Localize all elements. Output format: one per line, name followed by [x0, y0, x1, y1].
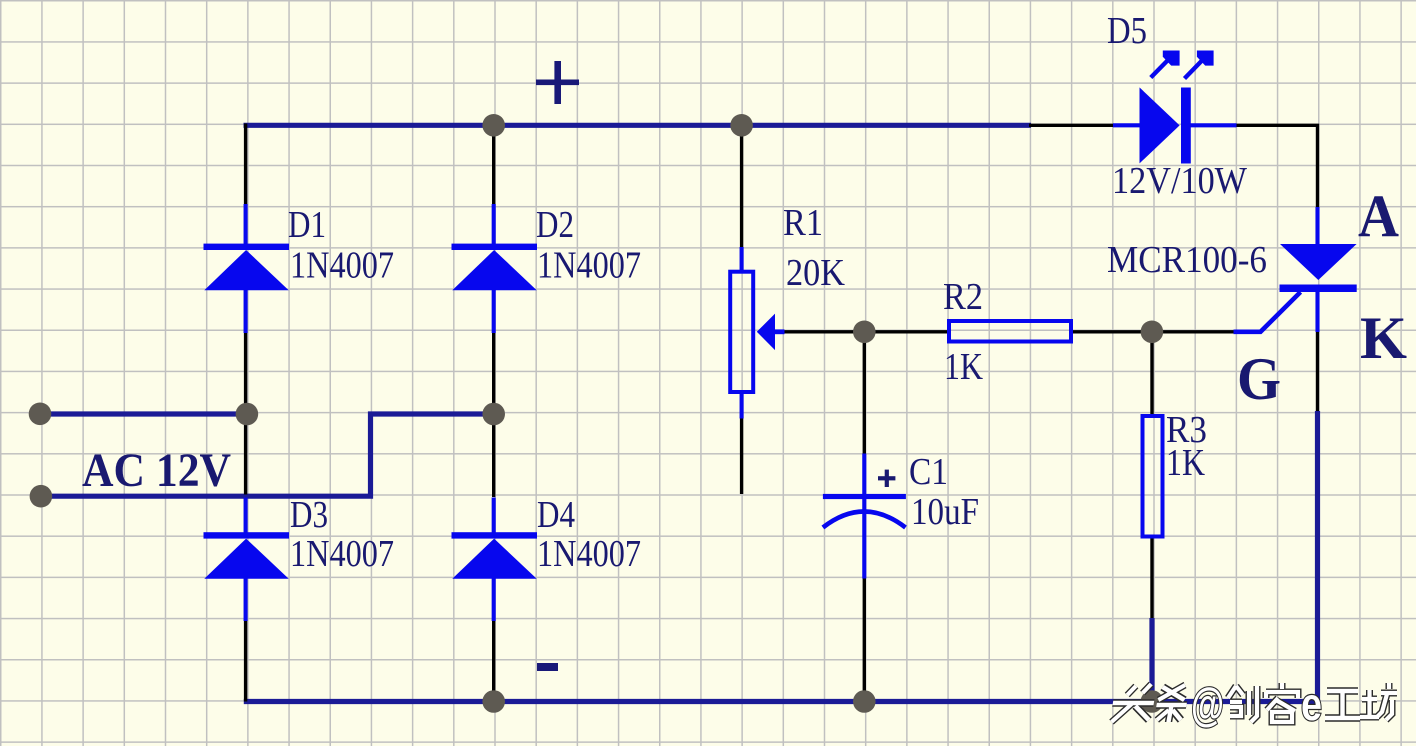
svg-text:20K: 20K — [786, 252, 845, 294]
node junction top rail/D2 — [482, 114, 505, 137]
wire top rail black mid segment — [1029, 124, 1114, 127]
wire wiper to R2 black — [784, 330, 949, 333]
label + plus rail mark — [536, 61, 579, 104]
wire top rail black right segment with corner — [1236, 125, 1318, 209]
wire R2 to gate node black — [1072, 330, 1237, 333]
diode D3 — [204, 498, 290, 622]
thyristor MCR100-6 — [1234, 207, 1357, 332]
node junction AC1/column1 — [236, 403, 259, 426]
svg-text:G: G — [1237, 346, 1281, 412]
svg-text:1N4007: 1N4007 — [290, 245, 394, 287]
capacitor C1 polarity plus mark — [878, 470, 895, 487]
wire column1 upper black — [244, 124, 247, 207]
LED D5 — [1113, 87, 1237, 163]
potentiometer R1 wiper arrow — [757, 314, 785, 351]
node junction bottom rail/D4 — [482, 690, 505, 713]
svg-text:1N4007: 1N4007 — [290, 533, 394, 575]
LED D5 arrow 2 — [1185, 51, 1214, 79]
node junction wiper/C1 — [853, 321, 876, 344]
svg-text:AC 12V: AC 12V — [82, 444, 231, 497]
watermark toutiao logo glyph tou — [1110, 684, 1158, 722]
svg-text:C1: C1 — [909, 451, 948, 493]
wire R3 bottom black — [1150, 538, 1153, 620]
node junction gate/R3 — [1141, 321, 1164, 344]
svg-text:MCR100-6: MCR100-6 — [1107, 239, 1267, 281]
svg-text:D3: D3 — [290, 494, 328, 536]
wire R1 bottom stub black — [740, 417, 743, 494]
svg-text:1K: 1K — [944, 346, 983, 388]
diode D1 — [204, 204, 290, 333]
wire cathode black segment — [1316, 332, 1319, 413]
node junction AC2/column2 — [482, 403, 505, 426]
LED D5 arrow 1 — [1151, 51, 1180, 78]
resistor R2 — [949, 321, 1071, 342]
wire column1 middle black — [244, 331, 247, 495]
wire column2 lower black — [492, 619, 495, 702]
watermark glyph fang — [1360, 683, 1397, 720]
node junction top rail/R1 — [730, 114, 753, 137]
resistor R3 — [1143, 416, 1163, 537]
wire top rail navy (+ bus) — [244, 123, 1032, 128]
wire C1 bottom black — [863, 577, 866, 702]
diode D4 — [452, 498, 538, 622]
svg-text:D4: D4 — [537, 494, 575, 536]
node AC terminal upper — [29, 403, 52, 426]
svg-text:@: @ — [1191, 678, 1224, 730]
svg-text:D5: D5 — [1107, 10, 1147, 52]
svg-text:D1: D1 — [288, 204, 326, 246]
wire cathode navy segment — [1315, 411, 1320, 702]
node junction bottom rail/C1 — [853, 690, 876, 713]
svg-text:1K: 1K — [1166, 442, 1205, 484]
potentiometer R1 — [730, 247, 753, 419]
wire R3 top black — [1150, 332, 1153, 415]
node AC terminal lower — [30, 485, 53, 508]
wire AC input upper — [40, 411, 247, 416]
watermark glyph ke — [1266, 683, 1298, 722]
svg-text:12V/10W: 12V/10W — [1112, 160, 1247, 202]
watermark glyph gong — [1325, 691, 1360, 718]
svg-text:A: A — [1358, 183, 1399, 249]
svg-text:D2: D2 — [536, 204, 574, 246]
wire column1 lower black — [244, 619, 247, 702]
svg-text:R2: R2 — [943, 276, 983, 318]
capacitor C1 — [823, 454, 906, 579]
node junction bottom rail/R3 — [1141, 690, 1164, 713]
diode D2 — [452, 204, 538, 333]
label - minus rail mark — [537, 663, 558, 671]
svg-text:10uF: 10uF — [911, 491, 979, 533]
watermark toutiao logo glyph tiao — [1154, 685, 1191, 722]
svg-text:K: K — [1360, 305, 1407, 371]
wire column2 upper black — [492, 125, 495, 206]
watermark glyph chuang — [1228, 686, 1257, 722]
wire C1 top black — [863, 332, 866, 456]
svg-text:R1: R1 — [783, 202, 823, 244]
wire column2 middle black — [492, 331, 495, 497]
wire R1 top black — [740, 125, 743, 249]
wire AC input lower step to D2/D4 column — [41, 414, 494, 496]
wire R3 bottom navy — [1149, 618, 1154, 702]
svg-text:1N4007: 1N4007 — [537, 245, 641, 287]
svg-text:e: e — [1301, 678, 1322, 730]
svg-text:1N4007: 1N4007 — [537, 533, 641, 575]
wire bottom rail navy (- bus) — [244, 699, 1318, 704]
